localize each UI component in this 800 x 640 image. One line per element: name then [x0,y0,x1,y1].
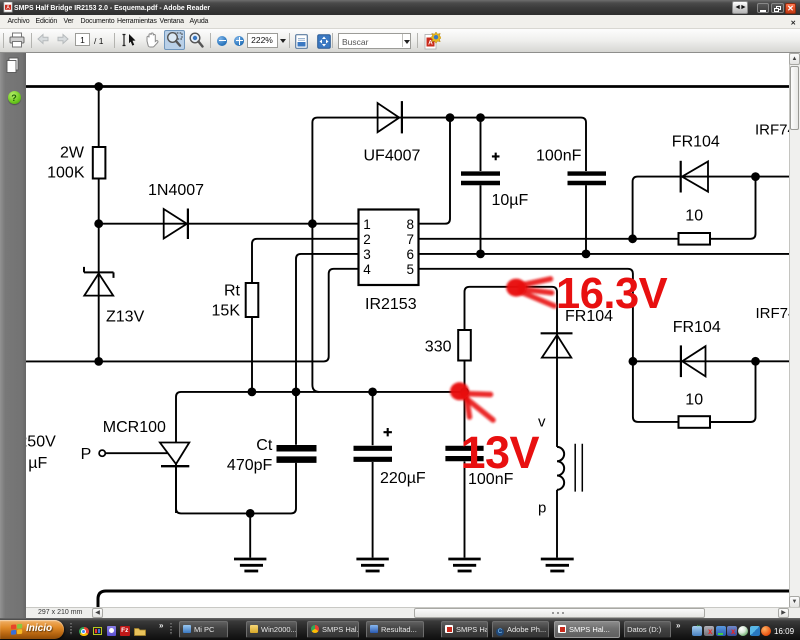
svg-text:IRF740: IRF740 [755,122,789,139]
svg-text:16.3V: 16.3V [556,270,668,318]
svg-text:10µF: 10µF [492,192,529,209]
svg-text:10: 10 [685,207,703,224]
svg-text:p: p [538,500,546,517]
svg-text:FR104: FR104 [673,319,721,336]
svg-text:100K: 100K [47,164,85,181]
svg-text:UF4007: UF4007 [364,147,421,164]
svg-text:4: 4 [363,262,371,277]
svg-text:1: 1 [363,217,371,232]
svg-text:µF: µF [28,455,47,472]
svg-text:100nF: 100nF [536,147,582,164]
svg-text:2: 2 [363,232,371,247]
svg-text:FR104: FR104 [672,133,720,150]
svg-text:IRF740: IRF740 [756,305,790,322]
svg-text:6: 6 [406,247,414,262]
svg-text:3: 3 [363,247,371,262]
svg-text:5: 5 [406,262,414,277]
svg-text:10: 10 [685,392,703,409]
svg-text:330: 330 [425,338,452,355]
svg-text:1N4007: 1N4007 [148,182,204,199]
svg-text:13V: 13V [461,427,540,478]
svg-text:250V: 250V [26,434,56,451]
svg-text:Z13V: Z13V [106,308,145,325]
svg-text:P: P [81,446,92,463]
svg-text:470pF: 470pF [227,457,273,474]
svg-text:15K: 15K [212,303,241,320]
svg-text:220µF: 220µF [380,470,426,487]
svg-text:8: 8 [406,217,414,232]
svg-text:v: v [538,414,546,431]
svg-text:IR2153: IR2153 [365,296,417,313]
svg-text:Ct: Ct [256,437,273,454]
svg-text:Rt: Rt [224,283,241,300]
svg-text:2W: 2W [60,145,85,162]
svg-text:7: 7 [406,232,414,247]
svg-text:MCR100: MCR100 [103,419,166,436]
